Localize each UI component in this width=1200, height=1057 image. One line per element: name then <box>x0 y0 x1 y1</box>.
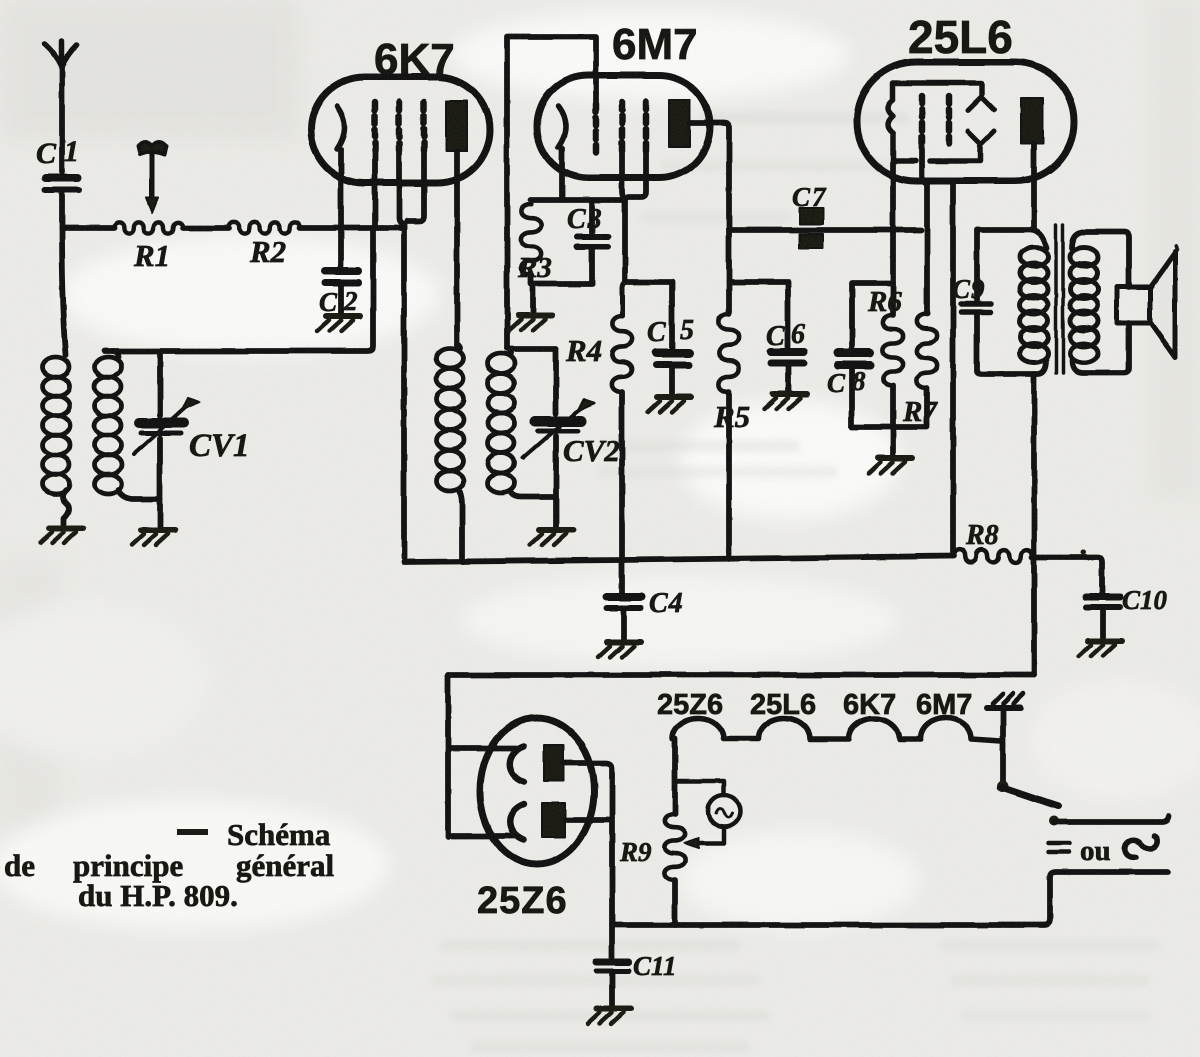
6K7 grid 2 <box>396 102 403 152</box>
AC symbol <box>1125 836 1157 857</box>
wire 6K7 cathode lead <box>338 150 344 266</box>
wire R9 top <box>672 739 678 814</box>
capacitor C3 <box>577 202 608 283</box>
wire heater to switch <box>1000 710 1006 781</box>
6M7 grid 1 <box>593 104 600 152</box>
wire grid node down to R6 <box>890 283 896 315</box>
25L6 cathode shield box <box>888 83 982 161</box>
wire R5 bottom to bus <box>726 392 732 559</box>
ground under CV2 <box>530 530 573 545</box>
resistor R7 <box>917 314 937 388</box>
capacitor C10 <box>1086 597 1120 638</box>
resistor R3 <box>529 200 534 204</box>
wire screen node to C5 <box>625 282 672 348</box>
tube 6M7 envelope <box>537 75 710 178</box>
pilot lamp <box>675 781 740 848</box>
25Z6 cathode lower <box>510 804 524 840</box>
resistor R2 <box>229 222 300 233</box>
wire grid node to C8 <box>852 283 893 348</box>
bottom supply bus <box>612 872 1168 925</box>
25Z6 cathode upper <box>510 746 524 782</box>
tube 25L6 envelope <box>857 62 1074 181</box>
wire 25Z6 plate outputs <box>563 763 612 925</box>
speaker HP <box>1117 246 1177 357</box>
ground under R3 <box>509 315 552 330</box>
ground under C5 <box>648 397 691 412</box>
6M7 cathode <box>558 106 566 147</box>
capacitor C1 <box>45 178 79 190</box>
wire 6M7 plate lead <box>690 123 729 230</box>
label C8 <box>827 366 866 398</box>
ground under C6 <box>764 394 807 409</box>
capacitor C7 <box>799 208 823 248</box>
inductor T1 output transformer primary <box>1020 248 1048 363</box>
tube 6K7 envelope <box>311 77 490 183</box>
wire node down to antenna coil <box>62 228 66 355</box>
wire power terminal top <box>1054 816 1168 822</box>
25L6 anode <box>1021 98 1043 144</box>
capacitor C9 <box>961 230 991 371</box>
resistor R1 <box>114 222 183 233</box>
25Z6 anode upper <box>544 745 563 781</box>
wire 6K7 grid 2 lead to bus <box>399 152 404 558</box>
25L6 grid 2 <box>946 96 953 143</box>
wire goalpost grid link 6M7 <box>507 37 596 348</box>
wire 6K7 plate lead down <box>454 151 460 345</box>
wire plate node down R5 <box>726 230 732 314</box>
wire branch to C6 <box>729 282 788 347</box>
25L6 beam plate arrows <box>968 97 994 144</box>
capacitor C6 <box>771 352 804 391</box>
variable capacitor CV1 <box>134 351 200 528</box>
transformer core <box>1056 224 1063 373</box>
wire secondary to speaker <box>1072 232 1129 373</box>
wire 25L6 screen lead to bus <box>950 181 956 556</box>
heater chain line <box>672 718 1001 741</box>
wire bias network bottom <box>852 385 927 455</box>
wire R8 to C10 <box>1032 557 1102 593</box>
wire tuned circuit top <box>104 228 373 351</box>
resistor R5 <box>719 314 739 392</box>
ground heater end <box>987 694 1023 708</box>
ground under C4 <box>598 642 641 657</box>
capacitor C11 <box>596 925 629 1006</box>
resistor R9 <box>665 814 685 880</box>
inductor L4 IF transformer secondary <box>488 348 557 497</box>
capacitor C8 <box>838 353 870 427</box>
inductor L2 secondary coil <box>95 351 161 499</box>
caption dash <box>177 829 208 835</box>
inductor L3 IF transformer primary <box>437 345 464 562</box>
wire 6M7 cathode lead <box>559 148 565 200</box>
wire coupling line with C7 <box>729 227 921 233</box>
capacitor C4 <box>607 597 641 639</box>
junction dot <box>1081 550 1086 555</box>
6M7 grid 2 <box>619 102 626 152</box>
variable capacitor CV2 <box>523 349 595 528</box>
6K7 cathode <box>337 106 345 149</box>
label C5 <box>647 315 694 348</box>
wire 6K7 grid 1 lead <box>372 150 378 226</box>
6K7 grid 1 <box>372 102 379 152</box>
wire 25L6 plate lead <box>1031 144 1037 228</box>
wire L4 top to CV2 <box>511 346 556 352</box>
6M7 grid 3 <box>643 102 650 152</box>
wire main horizontal grid line <box>62 225 404 231</box>
inductor L1 antenna primary coil <box>43 357 70 494</box>
wire R4 bottom through bus to C4 <box>619 392 625 594</box>
power switch <box>997 780 1059 826</box>
antenna <box>45 41 77 172</box>
capacitor C5 <box>656 353 689 394</box>
ground under R6 R7 <box>869 458 912 473</box>
resistor R6 <box>883 315 903 385</box>
6M7 anode <box>669 100 690 147</box>
25L6 grid 1 <box>919 96 926 143</box>
ground under CV1 <box>132 530 175 545</box>
ghost bleedthrough marks <box>430 112 1160 1052</box>
wire 25Z6 feed <box>448 675 517 837</box>
wire transformer bottom <box>977 360 1046 374</box>
tube 25Z6 envelope <box>480 718 594 864</box>
wire coil L1 to ground squiggle <box>63 490 70 524</box>
label C6 <box>766 319 805 352</box>
potentiometer wiper of R1 <box>138 142 166 213</box>
wire 25L6 cathode lead <box>922 143 927 314</box>
capacitor C2 <box>325 271 358 313</box>
resistor R4 <box>622 282 625 316</box>
inductor T1 secondary <box>1070 248 1098 363</box>
wire antenna to node <box>59 193 65 228</box>
wire 25L6 grid lead down <box>890 161 896 283</box>
wire 6M7 cathode bias node <box>531 197 625 203</box>
resistor R8 <box>954 550 1032 563</box>
25Z6 anode lower <box>542 803 565 837</box>
6K7 grid 3 <box>421 102 428 152</box>
DC symbol <box>1048 843 1069 852</box>
wire R9 bottom <box>672 880 678 925</box>
wire 6K7 grid 3 jog <box>407 152 424 221</box>
wire transformer top <box>977 230 1046 248</box>
wire R3 bottom to ground <box>531 275 592 312</box>
ground under C11 <box>588 1009 631 1024</box>
label C2 <box>319 286 358 317</box>
wire bus B vertical riser <box>1031 374 1037 675</box>
supply bus B <box>448 672 1034 678</box>
wire 6M7 suppressor jog <box>628 152 646 197</box>
ground under L1 <box>40 528 83 543</box>
ground under C2 <box>317 316 360 331</box>
ground under C10 <box>1079 641 1122 656</box>
supply bus A <box>404 556 954 562</box>
6K7 anode <box>446 101 467 151</box>
wire 6M7 screen lead <box>622 152 625 282</box>
